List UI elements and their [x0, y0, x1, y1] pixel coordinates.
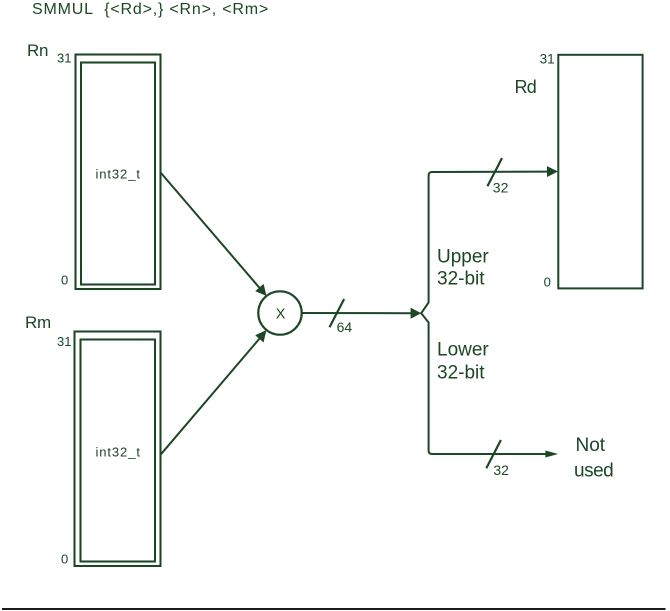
svg-text:32-bit: 32-bit [437, 269, 485, 290]
svg-text:Upper: Upper [437, 247, 489, 268]
svg-text:0: 0 [61, 552, 68, 567]
svg-text:31: 31 [540, 51, 555, 66]
svg-text:64: 64 [337, 319, 353, 335]
svg-text:Rd: Rd [515, 77, 536, 97]
bus width slash 32 upper [487, 158, 502, 186]
svg-text:31: 31 [57, 334, 71, 349]
arrowhead Not used [545, 451, 558, 458]
junction chevron split node [421, 303, 428, 323]
arrowhead Rn wire [255, 284, 266, 296]
svg-text:used: used [574, 460, 613, 481]
svg-text:32: 32 [493, 180, 509, 196]
register Rm inner box [81, 340, 156, 562]
wire multiplier to junction (64-bit result) [302, 312, 411, 314]
svg-text:int32_t: int32_t [96, 166, 141, 181]
bottom rule [2, 608, 666, 610]
bus width slash 32 lower [486, 440, 501, 468]
svg-text:0: 0 [544, 274, 551, 289]
arrowhead Rm wire [255, 330, 266, 343]
svg-text:31: 31 [57, 51, 71, 66]
wire Rn to multiplier [161, 173, 260, 288]
svg-text:0: 0 [61, 273, 68, 288]
arrowhead into junction [411, 308, 422, 319]
svg-text:32-bit: 32-bit [437, 362, 485, 383]
wire Rm to multiplier [161, 338, 260, 454]
svg-text:int32_t: int32_t [96, 444, 141, 459]
register Rm outer box [75, 332, 161, 567]
multiplier circle [258, 291, 301, 334]
register Rd box [558, 55, 642, 289]
svg-text:X: X [276, 306, 286, 322]
svg-text:Not: Not [576, 435, 606, 456]
svg-text:SMMUL {<Rd>,} <Rn>, <Rm>: SMMUL {<Rd>,} <Rn>, <Rm> [32, 1, 269, 18]
arrowhead into Rd [547, 166, 558, 177]
svg-text:Lower: Lower [437, 340, 489, 361]
wire lower branch riser and run to Not used [429, 322, 546, 454]
bus width slash 64 [330, 299, 345, 327]
register Rn outer box [76, 55, 161, 290]
svg-text:32: 32 [493, 462, 509, 478]
register Rn inner box [81, 63, 155, 285]
wire upper branch riser and run to Rd [429, 172, 548, 303]
svg-text:Rn: Rn [27, 41, 48, 60]
svg-text:Rm: Rm [25, 313, 51, 332]
